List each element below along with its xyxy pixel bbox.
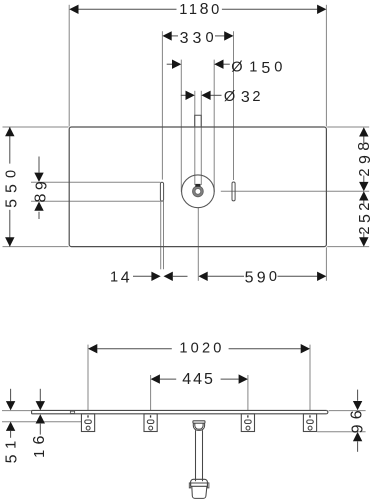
- svg-text:550: 550: [3, 164, 20, 208]
- svg-text:51: 51: [3, 435, 20, 463]
- svg-text:1020: 1020: [179, 340, 224, 356]
- svg-text:Ø32: Ø32: [224, 89, 263, 106]
- svg-text:298: 298: [356, 137, 373, 176]
- svg-text:590: 590: [245, 269, 281, 286]
- svg-text:16: 16: [31, 430, 48, 457]
- svg-text:445: 445: [182, 371, 215, 388]
- svg-text:1180: 1180: [179, 1, 222, 18]
- svg-text:252: 252: [357, 199, 373, 234]
- svg-text:14: 14: [110, 270, 132, 287]
- svg-text:330: 330: [180, 30, 218, 47]
- svg-text:Ø150: Ø150: [231, 60, 286, 77]
- svg-text:89: 89: [32, 178, 50, 203]
- svg-text:96: 96: [348, 405, 366, 433]
